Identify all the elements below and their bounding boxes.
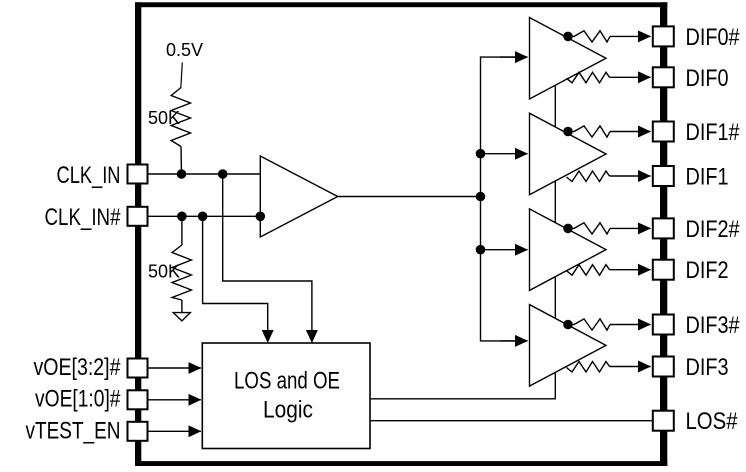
svg-text:DIF0#: DIF0#	[686, 24, 741, 51]
wire CLK_IN# tap to LOS logic	[203, 216, 268, 342]
svg-text:DIF3: DIF3	[686, 354, 729, 381]
pin DIF2#	[653, 218, 674, 238]
svg-text:DIF3#: DIF3#	[686, 312, 741, 339]
svg-text:DIF1: DIF1	[686, 164, 729, 191]
svg-text:DIF0: DIF0	[686, 65, 729, 92]
junction bus / main output	[476, 192, 486, 202]
svg-text:CLK_IN#: CLK_IN#	[45, 204, 122, 231]
pin CLK_IN	[128, 165, 148, 184]
svg-text:DIF2#: DIF2#	[686, 216, 741, 243]
junction CLK_IN# tap	[198, 212, 208, 222]
resistor R1 50K pull-up	[171, 88, 190, 147]
wire branch to buffer 4	[500, 340, 528, 342]
wire R1 to CLK_IN	[180, 147, 183, 175]
pin vOE[1:0]#	[128, 390, 148, 409]
wire vOE[3:2]# to LOS logic	[149, 367, 201, 369]
op-amp output buffer 4	[530, 305, 607, 387]
wire branch to buffer 1	[500, 56, 528, 58]
junction buffer1 top tap	[563, 32, 573, 42]
wire R2 to open arrow	[181, 300, 183, 313]
svg-text:LOS#: LOS#	[686, 408, 739, 435]
svg-text:vOE[1:0]#: vOE[1:0]#	[35, 386, 121, 413]
svg-text:Logic: Logic	[263, 397, 313, 424]
op-amp main input buffer	[260, 156, 337, 237]
open arrow termination	[173, 313, 190, 321]
svg-text:50K: 50K	[148, 262, 180, 282]
wire main buffer output to bus	[338, 196, 481, 198]
wire CLK_IN tap to LOS logic	[223, 174, 312, 343]
wire vertical bus	[481, 57, 528, 341]
pin DIF1	[653, 166, 674, 186]
wire R5 to DIF1#	[610, 131, 651, 133]
wire LOS# output	[370, 420, 652, 422]
op-amp output buffer 1	[530, 18, 607, 100]
junction CLK_IN / R1	[177, 169, 187, 179]
wire R4 to DIF0	[610, 76, 651, 78]
svg-text:DIF2: DIF2	[686, 257, 729, 284]
LOS and OE Logic block U1	[202, 343, 370, 449]
junction bus branch 2	[476, 149, 486, 159]
pin DIF3#	[653, 315, 674, 335]
junction buffer2 top tap	[563, 127, 573, 137]
op-amp output buffer 2	[530, 113, 607, 195]
pin DIF2	[653, 260, 674, 280]
resistor R6 series DIF1	[567, 171, 610, 182]
wire CLK_IN from pin to main buffer	[149, 173, 261, 175]
wire R10 to DIF3	[610, 366, 651, 368]
svg-text:LOS and OE: LOS and OE	[234, 368, 340, 395]
svg-text:0.5V: 0.5V	[166, 40, 203, 60]
pin DIF0#	[653, 26, 674, 46]
svg-text:DIF1#: DIF1#	[686, 119, 741, 146]
pin DIF3	[653, 357, 674, 377]
pin vOE[3:2]#	[128, 359, 148, 378]
resistor R3 series DIF0#	[566, 31, 610, 42]
pin CLK_IN#	[128, 207, 148, 226]
wire R6 to DIF1	[610, 175, 651, 177]
resistor R8 series DIF2	[567, 265, 610, 276]
pin DIF1#	[653, 122, 674, 142]
op-amp output buffer 3	[530, 209, 607, 291]
pin DIF0	[653, 67, 674, 87]
junction CLK_IN# at buffer edge	[255, 212, 265, 222]
junction buffer4 top tap	[563, 320, 573, 330]
resistor R2 50K pull-down	[181, 216, 183, 245]
resistor R5 series DIF1#	[566, 126, 610, 137]
wire vTEST_EN to LOS logic	[149, 430, 201, 432]
resistor R9 series DIF3#	[566, 319, 610, 330]
chip outer border	[135, 2, 667, 466]
wire CLK_IN# from pin to main buffer	[149, 215, 261, 217]
resistor R10 series DIF3	[567, 362, 610, 373]
wire branch to buffer 3	[481, 249, 528, 251]
wire vOE[1:0]# to LOS logic	[149, 399, 201, 401]
resistor R7 series DIF2#	[566, 223, 610, 234]
junction bus branch 3	[476, 245, 486, 255]
wire branch to buffer 2	[481, 153, 528, 155]
resistor R4 series DIF0	[567, 72, 610, 83]
wire R3 to DIF0#	[610, 35, 651, 37]
wire R8 to DIF2	[610, 269, 651, 271]
svg-text:vOE[3:2]#: vOE[3:2]#	[34, 354, 122, 381]
svg-text:50K: 50K	[148, 108, 180, 128]
svg-text:vTEST_EN: vTEST_EN	[26, 417, 121, 444]
wire 0.5V to resistor R1	[181, 63, 183, 89]
junction buffer3 top tap	[563, 224, 573, 234]
junction CLK_IN# / R2	[177, 212, 187, 222]
wire OE enable chain from LOS box to buffer enable inputs	[370, 85, 555, 399]
svg-text:CLK_IN: CLK_IN	[57, 162, 121, 189]
pin LOS#	[653, 411, 674, 431]
wire R9 to DIF3#	[610, 324, 651, 326]
junction CLK_IN tap	[218, 169, 228, 179]
pin vTEST_EN	[128, 422, 148, 441]
wire R7 to DIF2#	[610, 227, 651, 229]
